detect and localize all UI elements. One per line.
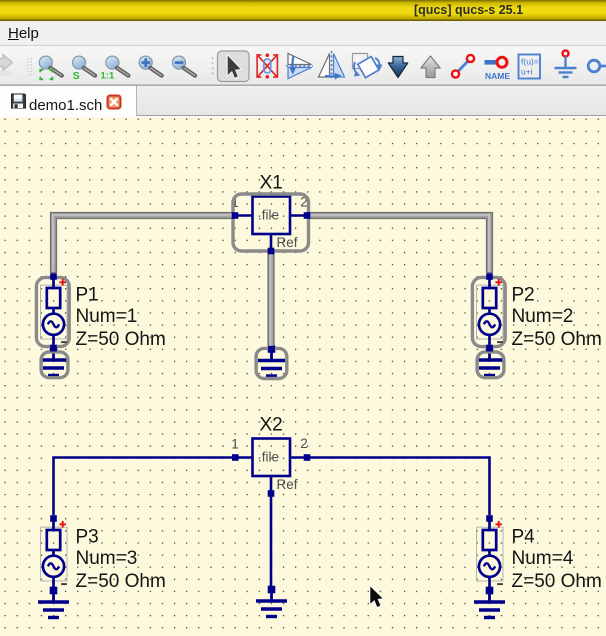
- ground under P4: [474, 587, 505, 617]
- port P2 bounding box: [477, 285, 504, 339]
- wire X2 ref to ground: [270, 494, 273, 589]
- svg-text:u+i: u+i: [521, 67, 533, 77]
- toolbar separator: [28, 58, 32, 75]
- svg-text:NAME: NAME: [485, 71, 510, 81]
- highlight ground P1: [41, 352, 68, 378]
- toolbar deactivate icon: [257, 55, 277, 77]
- node P2 top: [486, 273, 493, 280]
- highlight P2: [472, 277, 505, 346]
- toolbar equation icon: [519, 55, 541, 79]
- P2 plus/minus: [495, 279, 503, 342]
- toolbar wire icon: [452, 55, 474, 78]
- node P3 top: [50, 515, 57, 522]
- window title bar: [0, 0, 606, 21]
- svg-text:Num=2: Num=2: [512, 306, 574, 327]
- svg-text:P1: P1: [76, 285, 99, 306]
- svg-text:Z=50 Ohm: Z=50 Ohm: [76, 571, 166, 592]
- selected wires (thick gray): [53, 215, 490, 347]
- toolbar partial redo arrow: [0, 71, 13, 76]
- port P3: [43, 519, 64, 591]
- port P4 bounding box: [477, 527, 504, 581]
- wire X1 pin 2 to P2 top: [307, 216, 490, 274]
- svg-text:f(u)=: f(u)=: [521, 57, 539, 67]
- selection highlight boxes: [36, 194, 505, 379]
- highlight P1: [36, 277, 69, 346]
- svg-text:Num=4: Num=4: [512, 548, 574, 569]
- svg-text:.file: .file: [258, 450, 279, 465]
- P4 plus/minus: [495, 521, 503, 584]
- svg-text:S: S: [73, 70, 80, 82]
- node X1 pin1: [232, 212, 239, 219]
- highlight ground P2: [477, 352, 504, 378]
- svg-text:X1: X1: [260, 172, 283, 193]
- svg-text:Ref: Ref: [277, 235, 298, 250]
- wire X1 ref to ground: [267, 252, 274, 347]
- node P1 top: [50, 273, 57, 280]
- toolbar pop-up icon: [421, 56, 440, 78]
- node P2 bottom: [486, 345, 493, 352]
- port P4: [479, 519, 500, 591]
- port P1: [43, 277, 64, 349]
- toolbar: [0, 46, 606, 85]
- ground under P1: [40, 345, 67, 375]
- svg-text:1:1: 1:1: [101, 71, 115, 82]
- tab close button: [108, 96, 121, 109]
- node X2 pin1: [232, 454, 239, 461]
- node ground X1: [268, 346, 275, 353]
- toolbar push-down icon: [388, 57, 407, 78]
- toolbar mirror-Y icon: [286, 54, 313, 79]
- svg-text:1: 1: [231, 437, 239, 452]
- node X2 pin2: [304, 454, 311, 461]
- wire X2 pin 2 to P4: [307, 458, 490, 516]
- port P3 bounding box: [41, 527, 68, 581]
- toolbar port icon: [588, 60, 606, 72]
- tab bar: [0, 85, 606, 117]
- node X1 pin2: [304, 212, 311, 219]
- toolbar zoom-out icon: [173, 56, 196, 76]
- svg-text:Num=1: Num=1: [76, 306, 138, 327]
- toolbar zoom-in icon: [139, 56, 162, 76]
- toolbar zoom-S icon: [73, 56, 96, 82]
- tab floppy-disk icon: [12, 94, 26, 108]
- svg-text:P2: P2: [512, 285, 535, 306]
- ground under P2: [476, 345, 503, 375]
- P3 plus/minus: [59, 521, 67, 584]
- svg-text:X2: X2: [260, 415, 283, 436]
- highlight ground X1: [256, 348, 287, 378]
- toolbar zoom-fit icon: [39, 56, 62, 79]
- svg-text:2: 2: [300, 436, 308, 451]
- ground under P3: [38, 587, 69, 617]
- svg-text:P4: P4: [512, 527, 536, 548]
- node X1 ref: [268, 248, 275, 255]
- ground under X2: [256, 586, 287, 616]
- mouse cursor: [370, 587, 382, 608]
- svg-text:Z=50 Ohm: Z=50 Ohm: [76, 329, 166, 350]
- menu bar: [0, 21, 606, 46]
- wire P3 to X2 pin 1: [54, 458, 236, 516]
- wire P1 top corner to X1 pin 1: [54, 216, 236, 274]
- ground under X1: [258, 346, 285, 376]
- toolbar rotate icon: [353, 54, 383, 78]
- toolbar separator 2: [212, 57, 214, 74]
- port P1 bounding box: [41, 285, 68, 339]
- node X2 ref: [268, 490, 275, 497]
- svg-text:Z=50 Ohm: Z=50 Ohm: [512, 329, 602, 350]
- nodes (navy squares): [50, 212, 493, 352]
- toolbar ground icon: [555, 51, 577, 78]
- toolbar label icon: [485, 57, 511, 81]
- svg-text:Num=3: Num=3: [76, 548, 138, 569]
- svg-text:Ref: Ref: [277, 477, 298, 492]
- port P2: [479, 277, 500, 349]
- toolbar mirror-X icon: [319, 51, 345, 80]
- subcircuit X2 box: [253, 439, 291, 477]
- subcircuit X1 box: [253, 197, 291, 235]
- svg-text:P3: P3: [76, 527, 99, 548]
- node P1 bottom: [50, 345, 57, 352]
- P1 plus/minus: [59, 279, 67, 342]
- toolbar select button (pressed): [218, 51, 250, 82]
- toolbar zoom-1:1 icon: [101, 56, 129, 81]
- svg-text:.file: .file: [258, 208, 279, 223]
- X2 pin stubs: [235, 458, 307, 494]
- svg-text:Z=50 Ohm: Z=50 Ohm: [512, 571, 602, 592]
- X1 pin stubs: [235, 216, 307, 252]
- node P4 top: [486, 515, 493, 522]
- highlight X1: [233, 194, 309, 251]
